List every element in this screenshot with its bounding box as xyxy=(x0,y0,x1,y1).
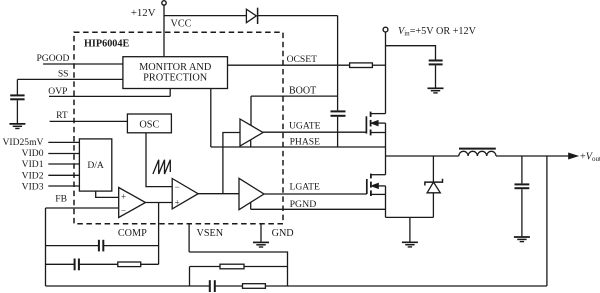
wire SS to capacitor xyxy=(16,79,18,94)
ground (soft-start cap) xyxy=(9,123,25,125)
resistor R1 (OCSET) xyxy=(350,63,373,68)
buffer U5 (LGATE driver) xyxy=(239,178,264,209)
capacitor C1 (soft-start) xyxy=(10,94,24,96)
svg-text:OCSET: OCSET xyxy=(287,54,318,65)
svg-text:MONITOR AND: MONITOR AND xyxy=(139,62,212,73)
wire FB down xyxy=(45,208,47,286)
op-amp U2 (error amp) xyxy=(119,188,146,218)
wire Vout feedback down xyxy=(546,156,548,286)
svg-text:UGATE: UGATE xyxy=(289,121,321,132)
wire BOOT rail xyxy=(250,96,252,126)
wire COMP vertical xyxy=(158,203,160,265)
wire down to boot cap (crosses OCSET) xyxy=(337,16,339,111)
svg-text:COMP: COMP xyxy=(118,228,147,239)
wire driver to PHASE xyxy=(250,140,252,147)
wire Vin rail xyxy=(385,32,387,114)
svg-text:VCC: VCC xyxy=(171,19,192,30)
wire monitor to PHASE xyxy=(210,89,212,148)
capacitor C2 (comp branch 1) xyxy=(46,245,99,247)
svg-text:VID25mV: VID25mV xyxy=(2,137,43,148)
svg-text:+12V: +12V xyxy=(131,7,156,19)
capacitor C5 (input) xyxy=(429,60,443,62)
wire Q1 source to switch node / Q2 drain xyxy=(385,123,387,175)
resistor R4 (VSEN divider) xyxy=(189,267,191,287)
wire ground rail xyxy=(386,216,434,218)
wire OSC to comparator xyxy=(146,133,172,187)
wire PWM to UGATE driver xyxy=(223,133,240,194)
inductor L1 xyxy=(459,151,496,156)
svg-text:Vin=+5V OR +12V: Vin=+5V OR +12V xyxy=(398,26,477,38)
arrow +Vout xyxy=(569,153,577,158)
svg-text:D/A: D/A xyxy=(87,160,104,171)
svg-text:OSC: OSC xyxy=(139,119,159,130)
wire PHASE line xyxy=(211,146,386,148)
wire VCC to diode xyxy=(164,15,246,17)
wire bottom feedback line xyxy=(46,285,210,287)
svg-text:−: − xyxy=(121,206,126,216)
svg-text:LGATE: LGATE xyxy=(290,182,321,193)
svg-text:OVP: OVP xyxy=(48,86,67,97)
svg-text:FB: FB xyxy=(55,194,67,205)
wire Q2 source to ground rail xyxy=(385,186,387,218)
buffer U4 (UGATE driver) xyxy=(240,119,263,146)
svg-text:+: + xyxy=(121,192,126,202)
block OSC xyxy=(127,114,171,133)
svg-text:SS: SS xyxy=(58,69,69,80)
svg-text:GND: GND xyxy=(272,228,294,239)
svg-text:PGOOD: PGOOD xyxy=(36,53,69,64)
transistor Q1 (upper MOSFET) xyxy=(365,116,367,133)
wire comparator output xyxy=(198,193,239,195)
svg-text:+: + xyxy=(175,197,180,207)
transistor Q2 (lower MOSFET) xyxy=(366,179,368,194)
wire inductor to output xyxy=(496,155,570,157)
svg-text:PGND: PGND xyxy=(290,199,317,210)
svg-text:VSEN: VSEN xyxy=(197,228,224,239)
capacitor C7 (feedback) xyxy=(209,280,211,292)
svg-text:BOOT: BOOT xyxy=(289,85,316,96)
wire error amp output xyxy=(146,202,173,204)
svg-text:RT: RT xyxy=(56,110,68,121)
svg-text:VID0: VID0 xyxy=(22,148,44,159)
resistor R3 (feedback) xyxy=(243,284,266,289)
svg-text:HIP6004E: HIP6004E xyxy=(84,38,129,49)
sawtooth waveform xyxy=(153,160,170,174)
capacitor C3 + resistor R2 (comp branch 2) xyxy=(46,263,75,265)
block D/A xyxy=(79,139,111,191)
ground (output cap) xyxy=(514,236,530,238)
+12V terminal xyxy=(162,1,166,5)
ground (GND pin) xyxy=(253,241,269,243)
chip outline HIP6004E (dashed) xyxy=(74,32,283,223)
wire D/A to error amp xyxy=(96,191,119,197)
svg-text:+Vout: +Vout xyxy=(580,152,600,164)
wire Vin to input cap xyxy=(386,46,436,60)
capacitor C4 (bootstrap) xyxy=(331,110,346,112)
svg-text:PHASE: PHASE xyxy=(290,136,321,147)
svg-text:VID2: VID2 xyxy=(22,170,44,181)
Vin terminal xyxy=(383,27,388,32)
capacitor C6 (output) xyxy=(521,156,523,183)
ground (input cap) xyxy=(428,87,444,89)
ground (power stage) xyxy=(409,217,411,241)
comparator U3 (PWM) xyxy=(172,179,198,209)
svg-text:PROTECTION: PROTECTION xyxy=(143,72,208,83)
svg-text:VID3: VID3 xyxy=(22,181,44,192)
wire driver to PGND xyxy=(250,202,252,209)
wire VCC vertical xyxy=(163,5,165,57)
diode D2 (schottky) xyxy=(432,156,434,182)
diode D1 (boot diode) xyxy=(246,9,256,23)
wire switch node xyxy=(386,155,459,157)
block MONITOR AND PROTECTION xyxy=(123,57,228,89)
svg-text:−: − xyxy=(175,182,180,192)
svg-text:VID1: VID1 xyxy=(22,159,44,170)
wire diode to corner xyxy=(258,15,338,17)
